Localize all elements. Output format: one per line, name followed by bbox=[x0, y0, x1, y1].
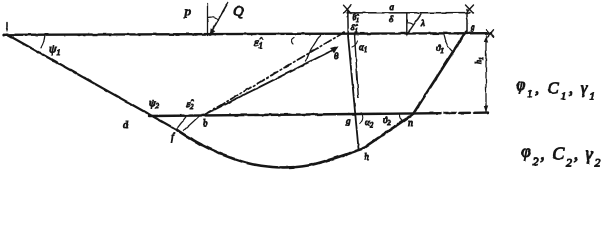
svg-text:θ: θ bbox=[334, 51, 339, 61]
svg-text:a: a bbox=[390, 2, 395, 12]
svg-text:p: p bbox=[184, 4, 192, 19]
svg-text:n: n bbox=[408, 118, 413, 129]
svg-text:Q: Q bbox=[233, 4, 244, 20]
svg-text:λ: λ bbox=[420, 18, 425, 28]
svg-text:g: g bbox=[471, 23, 475, 32]
svg-text:b: b bbox=[203, 118, 208, 128]
svg-text:g: g bbox=[346, 116, 351, 126]
svg-text:h: h bbox=[364, 152, 369, 163]
